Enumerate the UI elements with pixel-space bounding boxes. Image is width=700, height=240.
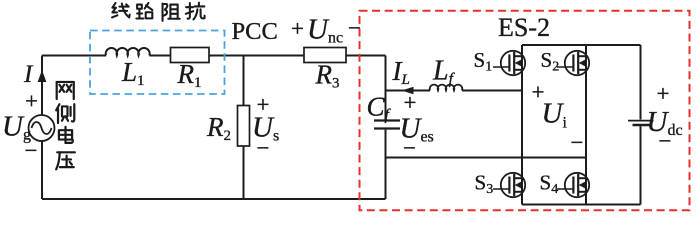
inductor L1 coil: [106, 48, 150, 55]
wire: Lf branch from Cf to leg A: [386, 90, 431, 92]
node PCC junction vertical wire down to R2: [243, 56, 245, 106]
blue dashed box: line impedance: [90, 31, 225, 95]
inductor Lf coil: [430, 85, 463, 91]
svg-text:S1: S1: [474, 48, 493, 75]
svg-text:−: −: [25, 138, 38, 163]
wire: dc link vertical top: [640, 45, 642, 120]
svg-text:L1: L1: [121, 57, 145, 89]
wire: bridge top rail: [522, 44, 641, 46]
svg-text:Cf: Cf: [367, 92, 392, 124]
wire: R3 to Cf branch: [346, 55, 386, 57]
resistor R3: [304, 48, 346, 63]
wire: Cf vertical top segment: [385, 56, 387, 120]
current arrow IL pointing left: [402, 87, 414, 94]
wire: left vertical bottom: [41, 141, 43, 199]
svg-text:I: I: [23, 61, 34, 88]
transistor S1: [493, 51, 525, 75]
wire: R2 bottom to bottom rail: [243, 146, 245, 199]
transistor S3: [493, 173, 525, 197]
wire: top rail from source corner to L1: [42, 55, 106, 57]
transistor S4: [557, 173, 589, 197]
svg-text:R2: R2: [206, 112, 231, 144]
wire: dc link vertical bottom: [640, 126, 642, 204]
resistor R1: [171, 48, 210, 63]
resistor R2: [238, 106, 250, 147]
wire: bridge leg A vertical: [521, 45, 523, 205]
battery Udc plates: [628, 120, 654, 122]
svg-text:−: −: [659, 129, 672, 154]
wire: bridge leg B vertical: [585, 45, 587, 205]
transistor S2: [557, 51, 589, 75]
svg-text:Lf: Lf: [432, 56, 456, 88]
svg-text:PCC: PCC: [232, 18, 278, 45]
svg-text:−: −: [571, 130, 584, 155]
wire: Cf bottom branch to leg B: [386, 157, 587, 159]
svg-text:+: +: [657, 81, 670, 106]
svg-text:−: −: [257, 136, 270, 161]
ac source Ug circle: [29, 115, 55, 141]
wire: left vertical top (source to top rail): [41, 56, 43, 116]
svg-text:S4: S4: [540, 171, 559, 198]
capacitor Cf plates: [374, 121, 400, 129]
svg-text:+: +: [25, 89, 38, 114]
svg-text:ES-2: ES-2: [498, 13, 550, 42]
wire: bridge bottom rail: [522, 204, 641, 206]
svg-text:R1: R1: [177, 59, 202, 91]
svg-text:Ui: Ui: [542, 98, 568, 132]
wire: R1 to PCC node to R3: [209, 55, 304, 57]
ac source sine wave: [32, 122, 52, 134]
svg-text:IL: IL: [392, 56, 410, 88]
red dashed box ES-2: [360, 11, 690, 211]
label 网侧电压 (grid side voltage) drawn as paths: [56, 82, 75, 169]
wire: Cf vertical bottom segment: [385, 130, 387, 199]
svg-text:+: +: [291, 16, 304, 41]
current arrow I on left wire: [38, 70, 47, 82]
title 线路阻抗 (line impedance) drawn as paths: [112, 3, 204, 21]
svg-text:Unc: Unc: [307, 14, 343, 47]
wire: between L1 and R1: [149, 55, 170, 57]
svg-text:R3: R3: [315, 60, 340, 92]
wire: bottom rail: [42, 198, 386, 200]
svg-text:S2: S2: [541, 48, 560, 75]
svg-text:+: +: [404, 90, 417, 115]
svg-text:S3: S3: [475, 171, 494, 198]
